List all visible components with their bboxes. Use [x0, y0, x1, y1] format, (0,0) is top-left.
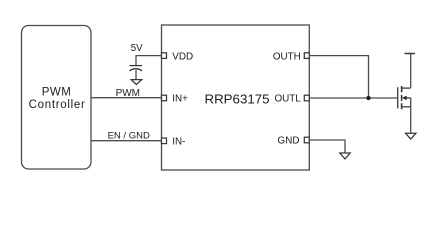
svg-text:PWM: PWM — [116, 88, 140, 99]
wire OUTH to junction — [309, 56, 369, 98]
svg-text:PWM: PWM — [42, 86, 71, 98]
pin VDD — [162, 51, 194, 62]
pin GND — [278, 136, 310, 147]
svg-text:RRP63175: RRP63175 — [204, 91, 269, 106]
svg-text:IN+: IN+ — [172, 94, 188, 105]
svg-text:GND: GND — [278, 136, 300, 147]
wire GND to ground — [309, 140, 345, 153]
node junction dot — [366, 96, 370, 100]
svg-text:OUTH: OUTH — [273, 51, 301, 62]
ground below source — [406, 133, 417, 139]
svg-text:IN-: IN- — [172, 137, 185, 148]
wire OUTL to gate — [309, 97, 398, 99]
svg-text:OUTL: OUTL — [274, 94, 301, 105]
pin IN+ — [162, 94, 189, 105]
ground below capacitor — [131, 80, 142, 85]
pin OUTL — [274, 94, 309, 105]
pin IN- — [162, 137, 186, 148]
wire 5V to VDD — [136, 56, 162, 66]
svg-text:5V: 5V — [131, 43, 143, 54]
PWM Controller box — [22, 26, 92, 170]
svg-text:VDD: VDD — [172, 51, 193, 62]
wire PWM — [91, 88, 162, 99]
transistor Q1 NMOS — [398, 86, 411, 109]
ground below GND pin — [340, 153, 350, 159]
pin OUTH — [273, 51, 309, 62]
wire source down — [410, 98, 412, 133]
capacitor C1 — [130, 66, 143, 80]
svg-text:Controller: Controller — [29, 99, 86, 111]
op-amp U1 RRP63175 IC body — [162, 25, 310, 170]
svg-text:EN / GND: EN / GND — [108, 131, 150, 142]
node drain supply terminal — [404, 53, 415, 55]
wire EN / GND — [91, 131, 162, 142]
wire drain up — [410, 54, 412, 89]
